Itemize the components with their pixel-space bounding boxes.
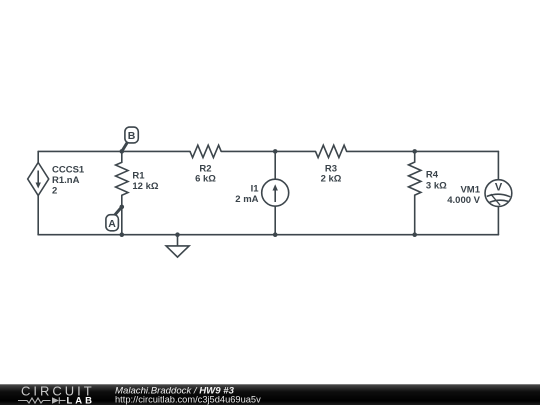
CCCS source CCCS1 (diamond with down arrow) xyxy=(28,163,49,196)
label VM1 value xyxy=(447,185,480,207)
svg-text:2 mA: 2 mA xyxy=(235,194,258,205)
svg-text:VM1: VM1 xyxy=(460,185,480,196)
label I1 value xyxy=(235,184,259,206)
wire I1 branch upper segment xyxy=(274,151,276,179)
wire bottom rail xyxy=(38,234,498,236)
label R1 value xyxy=(132,171,158,193)
logo resistor-diode squiggle xyxy=(18,397,66,403)
svg-text:LAB: LAB xyxy=(67,395,96,405)
svg-text:2: 2 xyxy=(52,186,57,197)
svg-text:I1: I1 xyxy=(251,184,260,195)
voltmeter VM1 xyxy=(485,180,512,207)
wire left lower segment xyxy=(37,195,39,235)
wire right lower segment xyxy=(497,206,499,234)
current source I1 (circle with up arrow) xyxy=(262,179,289,206)
svg-text:R4: R4 xyxy=(426,170,439,181)
resistor R2 (horizontal 6k) xyxy=(190,145,221,157)
label CCCS1 values xyxy=(52,165,85,197)
svg-text:12 kΩ: 12 kΩ xyxy=(132,181,158,192)
svg-text:6 kΩ: 6 kΩ xyxy=(195,173,216,184)
wire I1 branch lower segment xyxy=(274,206,276,235)
resistor R3 (horizontal 2k) xyxy=(316,145,347,157)
wire right upper segment xyxy=(497,151,499,179)
svg-text:A: A xyxy=(108,218,116,230)
junction node dots xyxy=(120,149,418,237)
ground symbol xyxy=(166,235,189,257)
flag node B xyxy=(122,127,139,151)
svg-text:3 kΩ: 3 kΩ xyxy=(426,180,447,191)
wire left upper segment xyxy=(37,151,39,162)
svg-text:2 kΩ: 2 kΩ xyxy=(321,173,342,184)
resistor R1 (vertical 12k) xyxy=(116,151,128,207)
label R2 value xyxy=(195,163,216,184)
flag node A xyxy=(106,207,122,231)
resistor R4 (vertical 3k) xyxy=(409,151,421,234)
wire top rail left xyxy=(38,150,190,152)
label R4 value xyxy=(426,170,447,192)
svg-text:R1: R1 xyxy=(132,171,145,182)
wire top rail middle xyxy=(221,150,315,152)
svg-text:B: B xyxy=(128,130,136,142)
svg-text:V: V xyxy=(495,182,503,194)
wire top rail right xyxy=(347,150,499,152)
svg-text:4.000 V: 4.000 V xyxy=(447,195,480,206)
svg-text:http://circuitlab.com/c3j5d4u6: http://circuitlab.com/c3j5d4u69ua5v xyxy=(115,394,261,404)
svg-text:R1.nA: R1.nA xyxy=(52,175,80,186)
footer bar xyxy=(0,384,540,405)
wire R1 branch lower segment xyxy=(121,207,123,235)
label R3 value xyxy=(321,163,342,184)
